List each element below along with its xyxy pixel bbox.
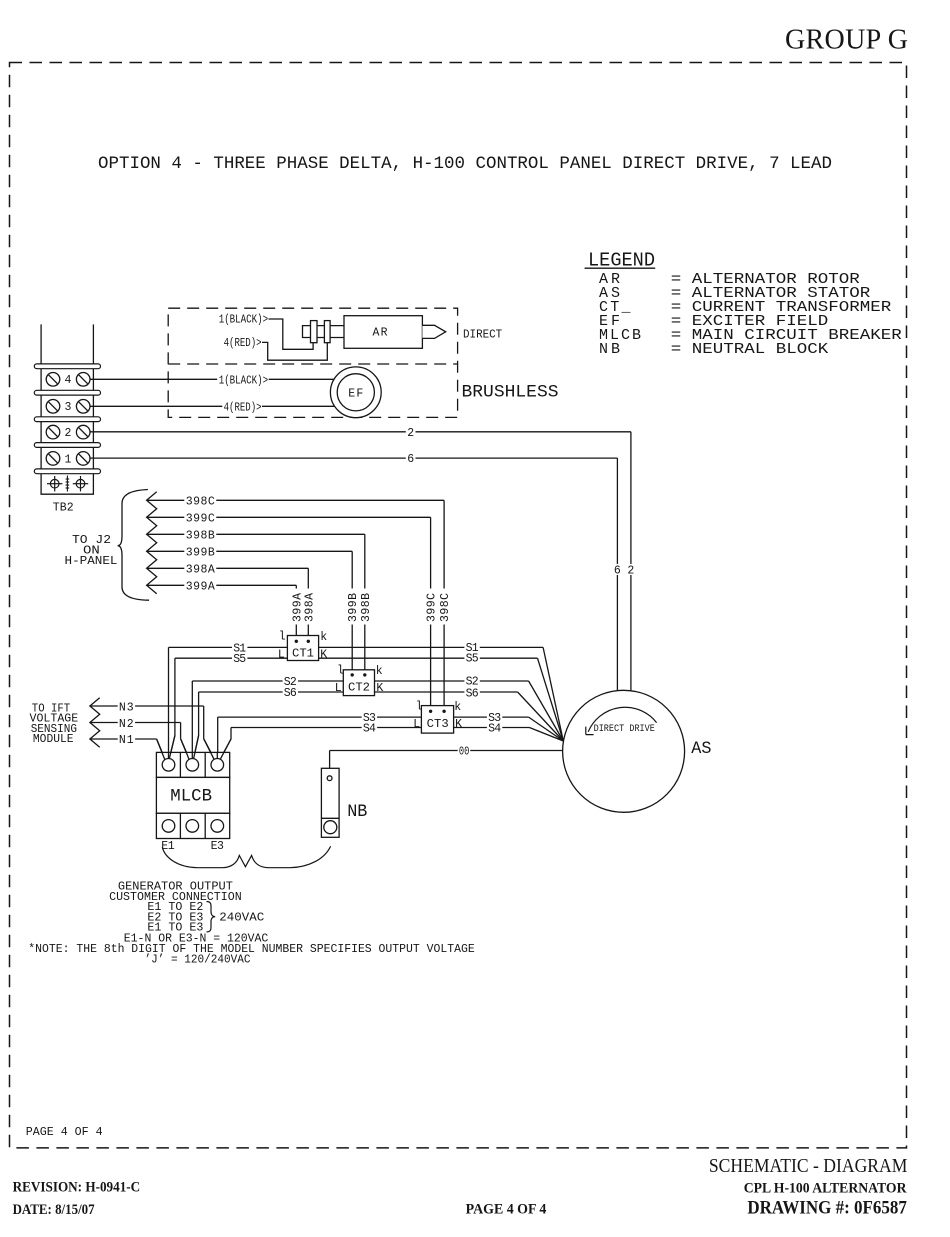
MLCB terminal circles (162, 759, 223, 772)
exciter field EF outer circle (330, 367, 381, 418)
svg-text:DIRECT DRIVE: DIRECT DRIVE (594, 723, 655, 735)
svg-text:SCHEMATIC - DIAGRAM: SCHEMATIC - DIAGRAM (709, 1155, 908, 1177)
svg-text:l: l (279, 631, 286, 644)
svg-text:398A: 398A (303, 593, 316, 622)
wire S6 right (375, 692, 564, 741)
wire S2 right (375, 681, 564, 741)
svg-text:MLCB: MLCB (170, 787, 212, 807)
svg-text:K: K (376, 682, 383, 695)
svg-text:PAGE 4 OF 4: PAGE 4 OF 4 (466, 1202, 547, 1218)
svg-text:AR: AR (373, 327, 388, 340)
svg-text:N1: N1 (119, 734, 134, 747)
svg-text:S4: S4 (363, 723, 376, 736)
svg-text:K: K (320, 649, 327, 662)
svg-text:l: l (416, 700, 423, 713)
svg-text:k: k (454, 701, 461, 714)
wire S3 right (454, 717, 564, 741)
rotation arrowhead (586, 727, 594, 735)
direct drive rotation arc (588, 707, 656, 732)
wire 398B (147, 534, 365, 675)
svg-text:DATE: 8/15/07: DATE: 8/15/07 (13, 1202, 95, 1218)
MLCB bottom terminal row (156, 813, 229, 838)
svg-text:OPTION 4 - THREE PHASE DELTA,: OPTION 4 - THREE PHASE DELTA, H-100 CONT… (98, 154, 832, 174)
svg-text:K: K (455, 718, 462, 731)
wire S2 left (192, 680, 343, 682)
wire S6 vertical+diagonal to MLCB (194, 692, 199, 759)
wire S5 vertical+diagonal to MLCB (169, 658, 175, 759)
svg-text:S5: S5 (466, 653, 479, 666)
svg-text:CT2: CT2 (348, 682, 370, 695)
svg-text:AS: AS (691, 739, 711, 759)
CT3 current transformer box (421, 706, 453, 734)
wire S1 vertical to MLCB (168, 647, 170, 758)
svg-text:k: k (320, 631, 327, 644)
wire S3 vertical to MLCB (217, 717, 219, 759)
wire S4 vertical+diagonal to MLCB (220, 728, 231, 760)
svg-text:N3: N3 (119, 701, 134, 714)
wire S6 left (199, 691, 344, 693)
svg-text:L: L (335, 682, 342, 695)
svg-text:398B: 398B (360, 593, 373, 622)
TB2 base box (41, 474, 93, 495)
wire S1 right (319, 647, 564, 741)
wire 398A (147, 568, 309, 641)
CT1 terminal dots (295, 640, 298, 643)
svg-text:399C: 399C (186, 512, 215, 525)
svg-text:399B: 399B (347, 593, 360, 622)
wire 399A (147, 585, 297, 641)
svg-text:L: L (278, 649, 285, 662)
TO J2 brace (118, 490, 150, 601)
wire 1(BLACK) TB2-4 to EF (90, 378, 217, 380)
240VAC brace (207, 902, 216, 932)
wire 2 from TB2 terminal 2 (90, 432, 631, 691)
svg-text:399A: 399A (186, 580, 215, 593)
TB2 base ground lug left (47, 476, 62, 491)
wire 398C (147, 500, 445, 711)
svg-text:4(RED)>: 4(RED)> (224, 337, 262, 350)
TO IFT zigzag arrowheads (90, 698, 100, 747)
svg-text:1: 1 (65, 453, 72, 466)
svg-text:l: l (337, 664, 344, 677)
svg-text:399C: 399C (426, 593, 439, 622)
svg-text:’J’ = 120/240VAC: ’J’ = 120/240VAC (145, 954, 251, 967)
wire tips into MLCB terminals (157, 736, 231, 761)
CT2 current transformer box (343, 670, 374, 696)
svg-text:2: 2 (65, 427, 72, 440)
svg-text:398B: 398B (186, 529, 215, 542)
TB2 left rail (40, 324, 42, 471)
AR box U-rotor (344, 316, 422, 349)
svg-text:398C: 398C (439, 593, 452, 622)
AS stator circle (563, 690, 685, 812)
svg-text:N2: N2 (119, 718, 134, 731)
AR shaft pointer (422, 325, 445, 338)
CT3 terminal dots (429, 710, 432, 713)
svg-text:3: 3 (65, 401, 72, 414)
TB2 screws row 2 (46, 425, 90, 439)
brushless enclosure divider (168, 363, 457, 365)
wire N1 (90, 739, 165, 760)
TB2 divider bars (34, 364, 100, 474)
TB2 right rail (92, 324, 94, 471)
svg-text:6: 6 (614, 565, 621, 578)
svg-text:BRUSHLESS: BRUSHLESS (462, 383, 559, 403)
svg-text:CT3: CT3 (427, 718, 449, 731)
wire S5 right (319, 658, 564, 741)
svg-text:2: 2 (407, 427, 414, 440)
TB2 screws row 1 (46, 452, 90, 466)
wire S2 vertical to MLCB (191, 681, 193, 759)
svg-text:2: 2 (627, 565, 634, 578)
svg-text:398A: 398A (186, 563, 215, 576)
wire N2 (90, 723, 190, 760)
svg-text:GROUP G: GROUP G (785, 25, 908, 56)
CT2 terminal dots (351, 673, 354, 676)
wire 00 from NB (330, 751, 563, 776)
wire 6 from TB2 terminal 1 (90, 458, 617, 691)
TB2 base jumper screw (66, 476, 70, 492)
svg-text:4: 4 (65, 374, 72, 387)
svg-text:k: k (376, 665, 383, 678)
customer connection underbrace (162, 846, 330, 868)
wire S4 left (231, 727, 421, 729)
svg-text:1(BLACK)>: 1(BLACK)> (219, 374, 269, 387)
wire S1 left (169, 646, 288, 648)
svg-text:TB2: TB2 (53, 502, 74, 515)
brush 2 (324, 321, 330, 343)
svg-text:1(BLACK)>: 1(BLACK)> (219, 314, 269, 327)
CT1 current transformer box (287, 636, 318, 661)
svg-text:REVISION: H-0941-C: REVISION: H-0941-C (13, 1180, 141, 1196)
J2 zigzag arrowheads (147, 492, 157, 594)
svg-text:*NOTE: THE 8th DIGIT OF THE MO: *NOTE: THE 8th DIGIT OF THE MODEL NUMBER… (28, 943, 474, 956)
legend underline (585, 267, 656, 269)
svg-text:NB: NB (347, 802, 367, 822)
svg-text:S6: S6 (284, 687, 297, 700)
svg-text:DIRECT: DIRECT (463, 328, 502, 342)
wire S3 left (218, 716, 422, 718)
wire S4 right (454, 728, 564, 742)
wire N3 (90, 706, 215, 759)
NB neutral block (321, 768, 339, 837)
rotor shaft (303, 326, 345, 338)
MLCB body (156, 777, 229, 813)
svg-text:240VAC: 240VAC (219, 911, 264, 924)
svg-text:E3: E3 (211, 840, 224, 853)
brushless unit dashed enclosure (168, 308, 457, 417)
svg-text:L: L (413, 718, 420, 731)
brush 1 (311, 321, 318, 343)
svg-text:= NEUTRAL BLOCK: = NEUTRAL BLOCK (671, 341, 829, 358)
EF inner circle (337, 374, 374, 411)
svg-text:CT1: CT1 (292, 648, 314, 661)
wire S5 left (175, 657, 288, 659)
svg-text:DRAWING #: 0F6587: DRAWING #: 0F6587 (747, 1197, 907, 1218)
TB2 base ground lug right (73, 476, 88, 491)
wire 399B (147, 551, 353, 675)
svg-text:CPL H-100 ALTERNATOR: CPL H-100 ALTERNATOR (744, 1180, 907, 1196)
MLCB top terminal row (156, 752, 229, 777)
svg-text:S5: S5 (233, 653, 246, 666)
svg-text:00: 00 (459, 746, 470, 759)
svg-text:S6: S6 (466, 687, 479, 700)
svg-text:4(RED)>: 4(RED)> (224, 401, 262, 414)
wire 4(RED) TB2-3 to EF (90, 405, 222, 407)
TB2 screws row 3 (46, 400, 90, 414)
svg-text:399A: 399A (291, 593, 304, 622)
svg-text:H-PANEL: H-PANEL (65, 554, 118, 568)
svg-text:MODULE: MODULE (33, 732, 74, 746)
svg-text:S4: S4 (488, 723, 501, 736)
wire 399C (147, 517, 431, 711)
svg-text:6: 6 (407, 453, 414, 466)
TB2 screws row 4 (46, 373, 90, 387)
svg-text:EF: EF (348, 387, 363, 400)
svg-text:398C: 398C (186, 495, 215, 508)
wire 4(RED) to brush (262, 342, 327, 360)
svg-text:PAGE 4 OF 4: PAGE 4 OF 4 (26, 1126, 103, 1139)
svg-text:399B: 399B (186, 546, 215, 559)
wire 1(BLACK) to brush (269, 319, 314, 349)
